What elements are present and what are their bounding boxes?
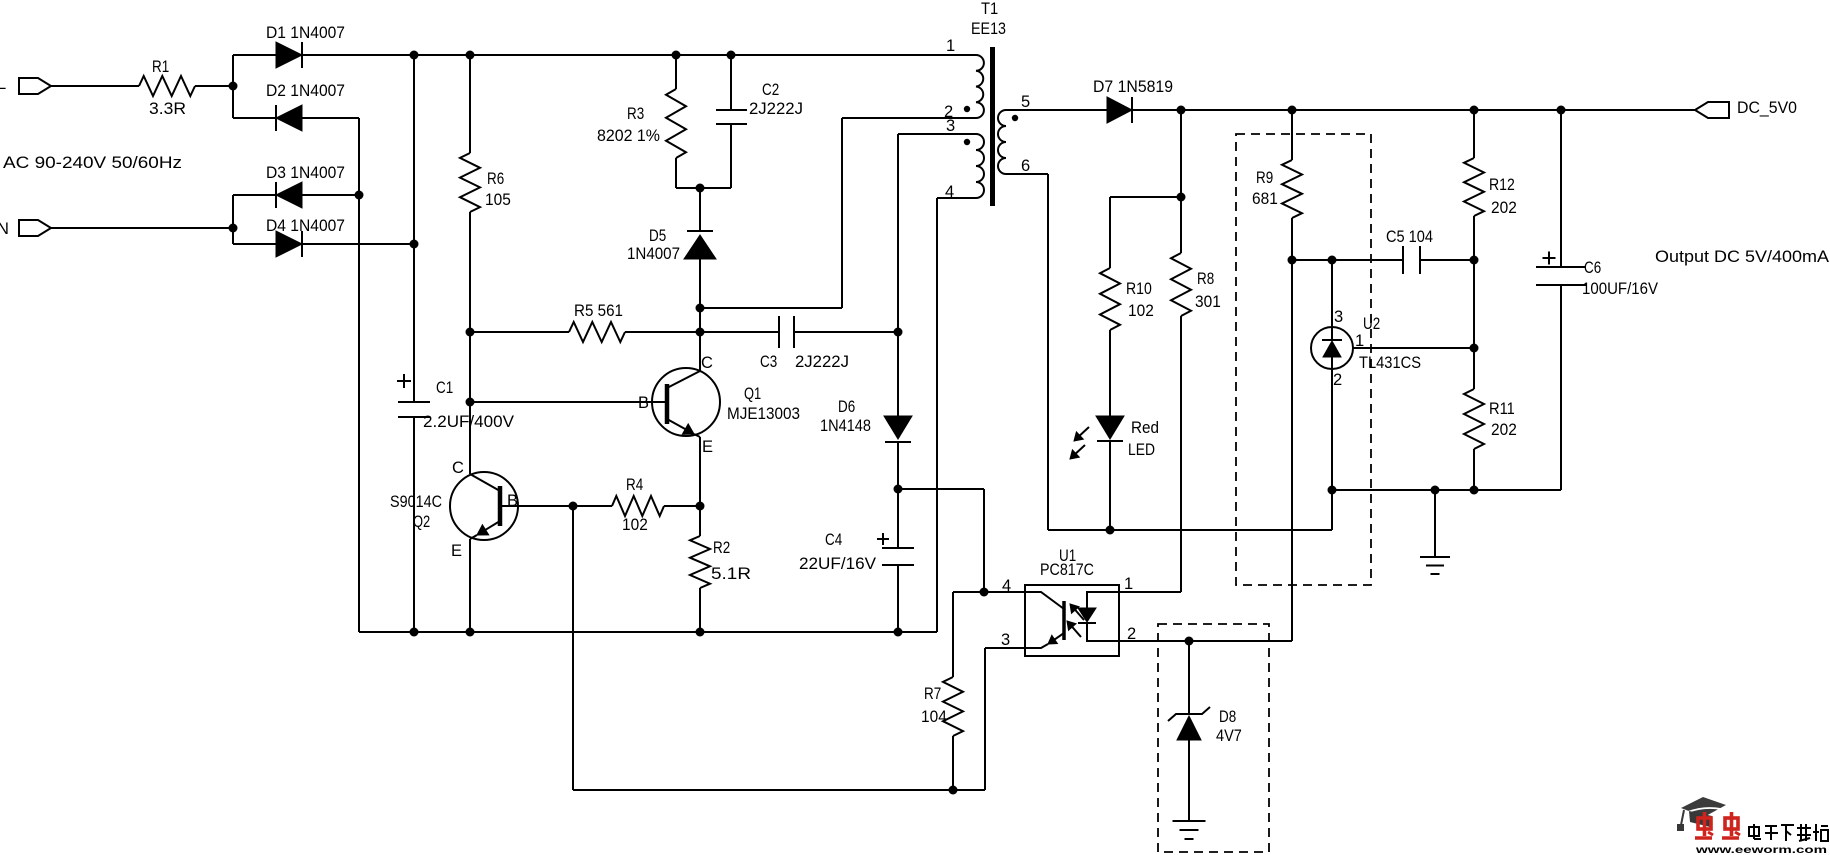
svg-text:R4: R4 <box>626 476 643 494</box>
wire <box>1180 110 1182 253</box>
wire <box>413 417 415 632</box>
svg-text:202: 202 <box>1491 421 1517 439</box>
wire <box>1291 218 1293 260</box>
wire <box>937 197 976 199</box>
node R11 bottom <box>1470 486 1479 495</box>
svg-text:301: 301 <box>1195 293 1221 311</box>
svg-text:681: 681 <box>1252 190 1278 208</box>
svg-text:4: 4 <box>945 183 954 201</box>
wire <box>1119 640 1292 642</box>
capacitor C6 100UF/16V <box>1536 110 1658 298</box>
transformer aux winding 3-4 <box>945 117 984 201</box>
node rail-bot C1 <box>410 628 419 637</box>
svg-text:TL431CS: TL431CS <box>1359 354 1421 372</box>
svg-text:DC_5V0: DC_5V0 <box>1737 99 1797 117</box>
svg-text:C6: C6 <box>1584 259 1601 277</box>
wire <box>936 198 938 632</box>
capacitor C1 2.2UF/400V <box>397 374 514 431</box>
wire <box>233 194 276 196</box>
svg-text:D5: D5 <box>649 227 666 245</box>
svg-text:EE13: EE13 <box>971 20 1006 38</box>
transformer primary dot <box>964 106 970 112</box>
node R5-Q1 junction <box>696 328 705 337</box>
wire <box>1109 441 1111 530</box>
svg-text:100UF/16V: 100UF/16V <box>1582 280 1658 298</box>
capacitor C4 22UF/16V <box>799 489 914 632</box>
node LED return <box>1106 526 1115 535</box>
transformer secondary winding 5-6 <box>998 93 1030 175</box>
wire <box>953 591 984 593</box>
wire <box>233 117 276 119</box>
wire <box>1047 174 1049 530</box>
svg-text:R11: R11 <box>1489 400 1515 418</box>
watermark logo eeworm <box>1677 797 1828 855</box>
shunt regulator U2 TL431CS <box>1311 260 1474 490</box>
wire <box>675 55 677 89</box>
LED red indicator <box>1070 416 1159 459</box>
wire <box>985 647 1025 649</box>
diode D4 1N4007 <box>266 217 345 257</box>
diode D7 1N5819 <box>1093 78 1173 123</box>
input connector N <box>0 220 51 238</box>
wire <box>573 789 985 791</box>
wire <box>699 188 701 231</box>
svg-text:U2: U2 <box>1363 315 1380 333</box>
svg-text:R9: R9 <box>1256 169 1273 187</box>
svg-text:5: 5 <box>1021 93 1030 111</box>
svg-text:B: B <box>638 394 649 412</box>
svg-text:D3 1N4007: D3 1N4007 <box>266 164 345 182</box>
svg-text:MJE13003: MJE13003 <box>727 405 800 423</box>
svg-text:6: 6 <box>1021 157 1030 175</box>
wire <box>897 134 899 332</box>
svg-text:8202 1%: 8202 1% <box>597 127 660 145</box>
ground (secondary ref for D8) <box>1173 821 1206 839</box>
wire <box>1188 641 1190 714</box>
wire <box>897 332 899 416</box>
capacitor C2 2J222J <box>716 81 803 124</box>
input connector L <box>0 75 51 94</box>
wire <box>232 195 234 244</box>
wire <box>1109 330 1111 416</box>
wire <box>898 488 984 490</box>
resistor R8 301 <box>1171 253 1221 316</box>
svg-text:B: B <box>507 492 518 510</box>
node rail-top A <box>410 51 419 60</box>
capacitor C5 104 <box>1386 228 1433 274</box>
wire <box>1132 109 1695 111</box>
transformer primary winding 1-2 <box>944 37 984 121</box>
node ground tap <box>1431 486 1440 495</box>
svg-text:2.2UF/400V: 2.2UF/400V <box>423 413 514 431</box>
wire <box>1292 259 1403 261</box>
svg-text:104: 104 <box>921 708 947 726</box>
diode D3 1N4007 <box>266 164 345 208</box>
transformer secondary dot <box>1012 115 1018 121</box>
svg-text:2J222J: 2J222J <box>749 100 803 118</box>
node R12 top <box>1470 106 1479 115</box>
resistor R1 3.3R <box>139 58 195 118</box>
wire <box>897 442 899 489</box>
svg-text:R7: R7 <box>924 685 941 703</box>
node Q2 base junction <box>569 502 578 511</box>
node Q1 base tap <box>466 398 475 407</box>
svg-text:PC817C: PC817C <box>1040 561 1094 579</box>
wire <box>1332 489 1561 491</box>
wire <box>572 506 574 790</box>
wire <box>1109 197 1111 268</box>
resistor R7 104 <box>921 592 963 790</box>
svg-text:2: 2 <box>1333 371 1342 389</box>
wire <box>841 118 843 308</box>
wire <box>1331 490 1333 530</box>
node rail-top C <box>672 51 681 60</box>
wire <box>1291 110 1293 160</box>
svg-text:2J222J: 2J222J <box>795 353 849 371</box>
label output rating <box>1655 248 1829 266</box>
wire <box>1473 216 1475 260</box>
wire <box>730 55 732 110</box>
svg-text:105: 105 <box>485 191 511 209</box>
svg-text:3.3R: 3.3R <box>149 100 186 118</box>
svg-text:Q2: Q2 <box>413 513 430 531</box>
svg-text:102: 102 <box>622 516 648 534</box>
svg-text:LED: LED <box>1128 441 1155 459</box>
svg-text:R6: R6 <box>487 170 504 188</box>
svg-text:C: C <box>701 354 713 372</box>
node R9 top <box>1288 106 1297 115</box>
node rail-bot R2 <box>696 628 705 637</box>
svg-text:1: 1 <box>1124 575 1133 593</box>
svg-text:202: 202 <box>1491 199 1517 217</box>
wire <box>469 212 471 472</box>
capacitor C3 2J222J <box>760 316 849 371</box>
wire <box>1473 260 1475 389</box>
node C5-divider junction <box>1470 256 1479 265</box>
svg-text:S9014C: S9014C <box>390 493 442 511</box>
svg-text:3: 3 <box>946 117 955 135</box>
resistor R6 105 <box>460 153 511 212</box>
wire <box>358 118 360 632</box>
node Q1 emitter junction <box>696 502 705 511</box>
wire <box>1006 109 1107 111</box>
wire <box>794 331 898 333</box>
wire <box>1188 740 1190 821</box>
node D2-D3 junction <box>355 191 364 200</box>
svg-text:D2 1N4007: D2 1N4007 <box>266 82 345 100</box>
svg-text:C2: C2 <box>762 81 779 99</box>
node rail-top D <box>727 51 736 60</box>
wire <box>983 489 985 592</box>
wire <box>51 227 233 229</box>
wire <box>984 648 986 790</box>
svg-text:R12: R12 <box>1489 176 1515 194</box>
svg-text:C4: C4 <box>825 531 842 549</box>
svg-text:R8: R8 <box>1197 270 1214 288</box>
svg-text:L: L <box>0 75 6 93</box>
wire <box>233 54 276 56</box>
wire <box>195 85 233 87</box>
wire <box>730 124 732 188</box>
svg-text:D8: D8 <box>1219 708 1236 726</box>
wire <box>898 133 976 135</box>
svg-text:3: 3 <box>1001 631 1010 649</box>
wire <box>699 332 701 371</box>
wire <box>1006 173 1048 175</box>
wire <box>413 55 415 402</box>
svg-text:Output DC 5V/400mA: Output DC 5V/400mA <box>1655 248 1829 266</box>
wire <box>359 631 937 633</box>
output connector DC_5V0 <box>1695 99 1797 118</box>
wire <box>675 158 677 188</box>
label AC input <box>3 154 182 172</box>
svg-text:R2: R2 <box>713 539 730 557</box>
resistor R10 102 <box>1100 268 1154 330</box>
node U2 anode junction <box>1328 486 1337 495</box>
node D8 junction <box>1185 637 1194 646</box>
wire <box>1110 196 1181 198</box>
resistor R9 681 <box>1252 160 1302 218</box>
node divider mid <box>1470 344 1479 353</box>
wire <box>469 539 471 632</box>
diode D6 1N4148 <box>820 398 912 442</box>
svg-text:4: 4 <box>1002 577 1011 595</box>
svg-text:1N4148: 1N4148 <box>820 417 871 435</box>
wire <box>573 505 612 507</box>
node snubber-D5 junction <box>696 184 705 193</box>
wire <box>1420 259 1474 261</box>
svg-text:E: E <box>451 542 462 560</box>
ground (output return) <box>1420 557 1450 574</box>
node aux junction <box>894 485 903 494</box>
wire <box>469 55 471 153</box>
node R5 tap <box>466 328 475 337</box>
wire <box>1434 490 1436 557</box>
diode D1 1N4007 <box>266 24 345 68</box>
wire <box>700 307 842 309</box>
node R9 bottom <box>1288 256 1297 265</box>
zener D8 4V7 <box>1168 707 1242 745</box>
svg-text:C3: C3 <box>760 353 777 371</box>
svg-text:R1: R1 <box>152 58 169 76</box>
svg-text:N: N <box>0 220 9 238</box>
wire <box>1560 285 1562 490</box>
wire <box>984 591 1025 593</box>
svg-text:1: 1 <box>1355 332 1364 350</box>
transistor Q1 MJE13003 <box>470 354 800 456</box>
wire <box>1473 449 1475 490</box>
svg-text:Red: Red <box>1131 419 1159 437</box>
diode D5 1N4007 <box>627 227 716 263</box>
wire <box>302 194 359 196</box>
wire <box>302 243 414 245</box>
svg-text:Q1: Q1 <box>744 385 761 403</box>
svg-text:102: 102 <box>1128 302 1154 320</box>
resistor R12 202 <box>1464 158 1517 217</box>
node rail-top B <box>466 51 475 60</box>
diode D2 1N4007 <box>266 82 345 131</box>
svg-text:R10: R10 <box>1126 280 1152 298</box>
wire <box>842 117 976 119</box>
svg-text:D4 1N4007: D4 1N4007 <box>266 217 345 235</box>
svg-text:www.eeworm.com: www.eeworm.com <box>1695 844 1827 855</box>
wire <box>1473 110 1475 158</box>
node rail-bot Q2 <box>466 628 475 637</box>
resistor R11 202 <box>1464 389 1517 449</box>
svg-text:D7 1N5819: D7 1N5819 <box>1093 78 1173 96</box>
node L-junction <box>229 82 238 91</box>
svg-text:22UF/16V: 22UF/16V <box>799 555 876 573</box>
wire <box>302 117 359 119</box>
svg-text:C1: C1 <box>436 379 453 397</box>
wire <box>699 437 701 506</box>
resistor R5 561 <box>569 302 625 342</box>
node D4 junction <box>410 240 419 249</box>
svg-text:C: C <box>452 459 464 477</box>
svg-text:E: E <box>702 438 713 456</box>
node opto pin4 junction <box>980 588 989 597</box>
node U2 ref tap <box>1328 256 1337 265</box>
resistor R3 8202 1% <box>597 89 686 158</box>
wire <box>233 243 276 245</box>
transformer T1 EE13 core <box>971 0 1006 206</box>
svg-text:C5 104: C5 104 <box>1386 228 1433 246</box>
wire <box>302 54 976 56</box>
resistor R2 5.1R <box>690 506 751 632</box>
svg-text:4V7: 4V7 <box>1216 727 1242 745</box>
wire <box>51 85 139 87</box>
svg-text:D1 1N4007: D1 1N4007 <box>266 24 345 42</box>
wire <box>1119 591 1181 593</box>
svg-text:5.1R: 5.1R <box>711 565 751 583</box>
svg-text:3: 3 <box>1334 308 1343 326</box>
wire <box>1048 529 1332 531</box>
node C3-D6 junction <box>894 328 903 337</box>
svg-text:1: 1 <box>946 37 955 55</box>
svg-text:T1: T1 <box>981 0 998 18</box>
transistor Q2 S9014C <box>390 459 573 560</box>
wire <box>1291 260 1293 641</box>
wire <box>625 331 779 333</box>
node R7 bottom <box>949 786 958 795</box>
node N-junction <box>229 224 238 233</box>
wire <box>469 472 471 474</box>
optocoupler U1 PC817C <box>1001 547 1136 656</box>
node pin2 tap <box>696 304 705 313</box>
svg-text:AC 90-240V 50/60Hz: AC 90-240V 50/60Hz <box>3 154 182 172</box>
node rail-bot C4 <box>894 628 903 637</box>
svg-text:R3: R3 <box>627 105 644 123</box>
wire <box>676 187 731 189</box>
resistor R4 102 <box>612 476 664 534</box>
wire <box>664 505 700 507</box>
wire <box>232 55 234 118</box>
node R8-R10 junction <box>1177 193 1186 202</box>
dashed feedback box <box>1236 134 1371 585</box>
wire <box>470 331 569 333</box>
dashed zener box <box>1158 624 1269 852</box>
wire <box>1180 316 1182 592</box>
wire <box>699 259 701 371</box>
svg-text:D6: D6 <box>838 398 855 416</box>
svg-text:R5 561: R5 561 <box>574 302 623 320</box>
node C6 top <box>1557 106 1566 115</box>
node R8 top <box>1177 106 1186 115</box>
transformer aux dot <box>964 139 970 145</box>
svg-text:1N4007: 1N4007 <box>627 245 680 263</box>
